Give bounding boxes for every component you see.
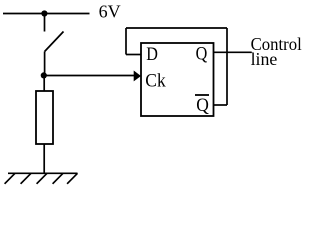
ground bbox=[5, 173, 78, 184]
wire feedback right vertical bbox=[226, 28, 228, 105]
node junction mid bbox=[41, 72, 47, 78]
switch S1 bbox=[45, 14, 64, 52]
wire resistor to ground bbox=[43, 144, 45, 173]
flip-flop U1 bbox=[141, 43, 214, 116]
wire clock input bbox=[44, 75, 134, 77]
wire switch to junction bbox=[44, 52, 46, 76]
svg-text:Ck: Ck bbox=[145, 70, 166, 91]
svg-text:line: line bbox=[251, 49, 278, 69]
wire D input bbox=[126, 54, 141, 56]
svg-text:6V: 6V bbox=[99, 2, 121, 22]
svg-text:D: D bbox=[146, 43, 158, 65]
svg-text:Q: Q bbox=[196, 94, 209, 115]
wire feedback Qbar out bbox=[214, 104, 228, 106]
wire Q output bbox=[214, 51, 252, 53]
arrowhead clock bbox=[134, 71, 141, 82]
resistor R1 bbox=[36, 91, 53, 144]
wire feedback left vertical bbox=[125, 28, 127, 55]
label Control line bbox=[251, 35, 302, 70]
svg-text:Q: Q bbox=[196, 42, 208, 64]
wire supply rail bbox=[3, 13, 90, 15]
node junction top bbox=[41, 10, 47, 16]
wire junction to resistor bbox=[43, 75, 45, 91]
pin Qbar bbox=[195, 94, 209, 115]
wire feedback top bbox=[126, 27, 227, 29]
